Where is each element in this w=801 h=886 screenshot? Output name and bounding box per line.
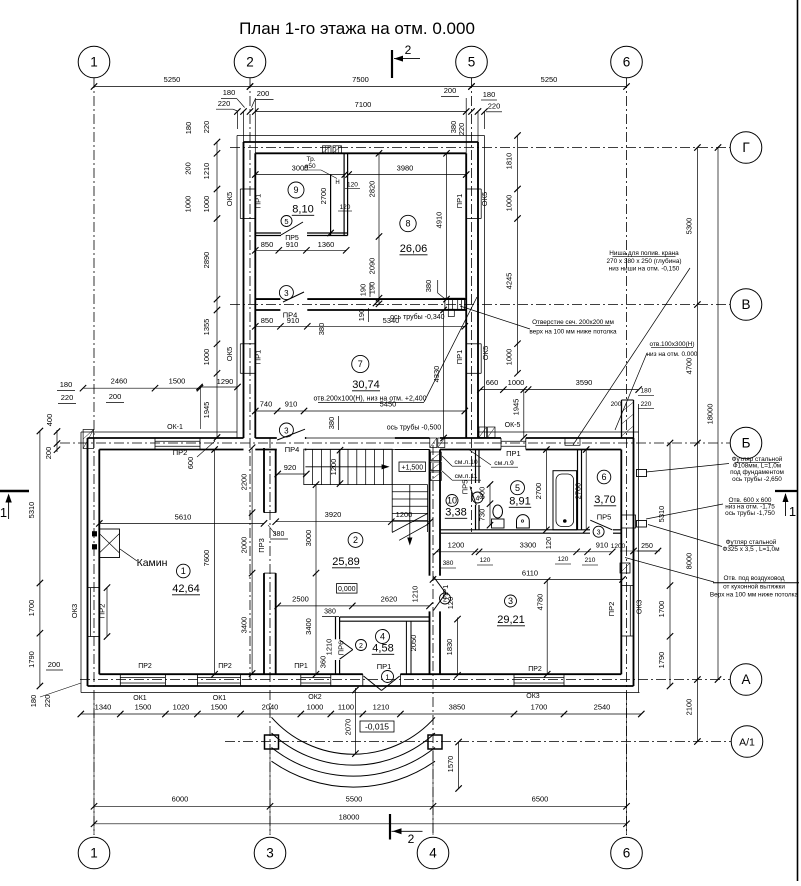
svg-text:5300: 5300 (684, 218, 693, 235)
window ОК5 upper-right wall (upper) (466, 188, 481, 190)
porch step arc r120 (272, 733, 436, 765)
bath cluster chain 1200/3300/910 (437, 551, 613, 553)
svg-text:ПР6: ПР6 (337, 641, 346, 656)
dimension chain 850/910/1360 below room 9 (255, 249, 346, 251)
thin foundation line right of upper block (484, 136, 486, 439)
svg-text:1: 1 (789, 504, 796, 519)
svg-text:⌀50: ⌀50 (304, 163, 316, 170)
svg-text:А: А (741, 672, 750, 687)
svg-text:380: 380 (424, 280, 433, 293)
axis line Б (horizontal) (60, 442, 730, 444)
svg-text:3: 3 (284, 427, 289, 436)
leader to отверстие (460, 306, 530, 329)
svg-text:200: 200 (444, 86, 457, 95)
svg-text:ПР1: ПР1 (294, 663, 308, 670)
svg-text:ПР1: ПР1 (377, 662, 392, 671)
svg-text:360: 360 (319, 656, 328, 669)
vertical 800/730 at toilet (489, 485, 491, 526)
axis line А (horizontal) (80, 679, 730, 681)
svg-text:200: 200 (44, 447, 53, 460)
svg-text:3920: 3920 (325, 510, 342, 519)
toilet (492, 519, 505, 528)
svg-text:ПР2: ПР2 (97, 604, 106, 619)
svg-text:5250: 5250 (164, 75, 181, 84)
svg-text:3: 3 (266, 846, 274, 861)
svg-text:3: 3 (508, 596, 513, 606)
svg-text:2540: 2540 (594, 703, 611, 712)
svg-text:400: 400 (45, 414, 54, 427)
svg-text:200: 200 (611, 401, 622, 408)
axis circle 4 (bottom) (417, 837, 449, 869)
outer wall upper block right (axis 5) (477, 142, 479, 438)
svg-text:190: 190 (359, 284, 368, 297)
svg-text:220: 220 (218, 99, 231, 108)
svg-text:ПР5: ПР5 (285, 235, 299, 242)
svg-text:1000: 1000 (307, 703, 324, 712)
svg-text:380: 380 (273, 531, 285, 538)
svg-text:ОК-1: ОК-1 (167, 424, 183, 431)
door ПР4 in В wall with swing and mark circle 3 (283, 292, 304, 302)
window ОК5 upper-left wall (upper) (240, 188, 255, 190)
underline воздуховод (713, 582, 799, 584)
dimension chain top row 1: 5250/7500/5250 (94, 86, 627, 88)
svg-text:-0,015: -0,015 (365, 722, 389, 732)
room 8 number circle and area label (400, 215, 416, 231)
svg-text:7100: 7100 (355, 100, 372, 109)
svg-text:910: 910 (596, 540, 609, 549)
svg-text:отв.100х300(Н): отв.100х300(Н) (650, 341, 695, 348)
svg-text:А/1: А/1 (739, 736, 755, 748)
folding door ПР6 of vestibule with mark circle 2 (340, 640, 353, 650)
svg-text:1360: 1360 (318, 240, 335, 249)
pipe sleeve upper (637, 470, 647, 477)
door ПР5 of room 9 with swing and mark circle 5 (281, 222, 303, 235)
svg-text:ПР1: ПР1 (455, 350, 464, 365)
svg-text:850: 850 (261, 240, 274, 249)
extension lines top of wall (axis 2) (236, 112, 238, 130)
axis line 6 (vertical) (626, 78, 628, 835)
svg-text:ПР1: ПР1 (441, 585, 450, 600)
svg-text:1: 1 (90, 55, 98, 70)
outer wall lower block left (axis 1) (87, 438, 89, 686)
axis circle В (right) (730, 289, 762, 321)
svg-text:190: 190 (357, 309, 366, 322)
svg-text:1945: 1945 (512, 399, 521, 416)
opening 600x600 on right wall (622, 515, 636, 528)
porch step arc r109 (272, 717, 436, 754)
svg-text:1000: 1000 (202, 349, 211, 366)
svg-text:ПР2: ПР2 (218, 663, 232, 670)
stair upper flight treads (304, 449, 392, 484)
svg-text:1790: 1790 (27, 651, 36, 668)
room 10 number circle and area label (446, 495, 458, 507)
svg-text:6000: 6000 (172, 795, 189, 804)
svg-text:ПР4: ПР4 (285, 445, 300, 454)
svg-text:Г: Г (742, 140, 750, 155)
partition below room 9 (255, 232, 281, 234)
svg-text:3980: 3980 (397, 164, 414, 173)
svg-text:ОК5: ОК5 (225, 347, 234, 361)
hatched niche at left Б corner (83, 430, 94, 449)
svg-text:1200: 1200 (611, 543, 626, 550)
dimension 920 at stairs (278, 473, 307, 475)
svg-text:4245: 4245 (505, 273, 514, 290)
svg-text:920: 920 (284, 463, 297, 472)
left outer chain 5310/1700/1790 (39, 431, 41, 686)
svg-text:200: 200 (48, 660, 61, 669)
svg-text:5: 5 (468, 55, 476, 70)
leader to отв 600х600 (646, 504, 723, 519)
svg-text:ОК5: ОК5 (481, 346, 490, 360)
svg-text:ПР5: ПР5 (460, 480, 469, 495)
svg-text:2: 2 (405, 43, 412, 57)
outer wall lower block bottom (А axis) (88, 685, 634, 687)
svg-text:1000: 1000 (505, 349, 514, 366)
dimension chain 2460/1500 over ОК-1 (83, 387, 200, 389)
svg-text:3,38: 3,38 (445, 507, 466, 519)
svg-text:8,91: 8,91 (509, 496, 530, 508)
svg-text:низ ниши на отм. -0,150: низ ниши на отм. -0,150 (609, 266, 680, 273)
svg-text:2: 2 (353, 535, 358, 545)
svg-text:1000: 1000 (184, 196, 193, 213)
axis circle А/1 (right) (731, 726, 763, 758)
flue boxes in top wall (323, 146, 332, 153)
thin foundation line above top wall (237, 135, 485, 137)
svg-text:2820: 2820 (368, 181, 377, 198)
section mark 2 (top) (391, 50, 393, 78)
door in axis-4 wall with mark circle 2 (433, 577, 445, 594)
stair arrow upper (305, 466, 386, 468)
svg-text:5250: 5250 (541, 75, 558, 84)
bathroom cluster bottom wall (440, 529, 590, 531)
section mark 2 (bottom) (389, 814, 391, 840)
window ОК3 right wall (621, 585, 633, 587)
svg-text:Верх на 100 мм ниже потолка: Верх на 100 мм ниже потолка (710, 592, 799, 599)
dimension 6110 room 3 (433, 578, 623, 580)
svg-text:ОК1: ОК1 (213, 695, 227, 702)
svg-text:2090: 2090 (368, 258, 377, 275)
vestibule left partition with folding door (335, 617, 337, 639)
stair lower flight treads (391, 485, 393, 532)
thin foundation line below bottom wall (81, 692, 640, 694)
svg-text:2000: 2000 (240, 537, 249, 554)
svg-text:4910: 4910 (435, 212, 444, 229)
thin foundation line right of lower block (638, 432, 640, 693)
svg-text:3590: 3590 (576, 378, 593, 387)
svg-text:1700: 1700 (531, 703, 548, 712)
axis line А/1 (horizontal) (225, 741, 731, 743)
svg-text:План 1-го этажа на отм. 0.000: План 1-го этажа на отм. 0.000 (239, 19, 475, 38)
svg-text:18000: 18000 (339, 812, 360, 821)
svg-text:ПР3: ПР3 (257, 538, 266, 553)
svg-text:6: 6 (623, 846, 631, 861)
leader to футляр Ф108 (646, 464, 729, 473)
outer wall upper block left (axis 2) (243, 142, 245, 438)
svg-text:4: 4 (429, 846, 437, 861)
room 6 number circle and area label (597, 470, 611, 484)
svg-text:7: 7 (358, 359, 363, 369)
level mark 0,000 in hall (337, 584, 358, 594)
svg-text:6: 6 (601, 472, 606, 482)
porch dimension 1570 (458, 742, 460, 789)
axis circle А (right) (730, 664, 762, 696)
svg-text:200: 200 (257, 89, 270, 98)
bottom chain total 18000 (94, 823, 627, 825)
svg-text:ПР1: ПР1 (455, 194, 464, 209)
svg-text:5: 5 (515, 483, 520, 493)
svg-text:1500: 1500 (169, 377, 186, 386)
svg-text:1500: 1500 (135, 703, 152, 712)
axis circle 6 (bottom) (611, 837, 643, 869)
axis circle 2 (top) (234, 46, 266, 78)
svg-text:180: 180 (641, 388, 652, 395)
svg-text:26,06: 26,06 (400, 243, 428, 255)
svg-text:7500: 7500 (352, 75, 369, 84)
svg-text:Н: Н (335, 180, 339, 186)
svg-text:ОК1: ОК1 (133, 695, 147, 702)
dimension 3980 in room 8 (349, 174, 467, 176)
axis circle Г (right) (730, 132, 762, 164)
svg-text:120: 120 (347, 181, 358, 188)
svg-text:30,74: 30,74 (352, 379, 380, 391)
svg-text:ось трубы -1,750: ось трубы -1,750 (725, 509, 775, 517)
svg-text:ОК3: ОК3 (526, 693, 540, 700)
right vertical chain total 18000 (717, 148, 719, 680)
svg-text:3,70: 3,70 (594, 494, 615, 506)
fireplace (99, 529, 119, 558)
svg-text:1355: 1355 (202, 319, 211, 336)
svg-text:отв.200х100(Н), низ на отм. +2: отв.200х100(Н), низ на отм. +2,400 (314, 396, 427, 403)
svg-text:1: 1 (0, 505, 7, 520)
svg-text:120: 120 (480, 557, 491, 564)
svg-text:220: 220 (202, 121, 211, 134)
svg-text:180: 180 (60, 380, 73, 389)
stair arrow lower (409, 485, 411, 542)
svg-text:6110: 6110 (522, 569, 538, 578)
axis2 vertical chain 2200/2000/3400 (251, 448, 253, 674)
axis circle Б (right) (730, 427, 762, 459)
door to bathroom with swing and mark circle 4 (470, 487, 476, 506)
axis circle 1 (bottom) (78, 837, 110, 869)
svg-text:ОК3: ОК3 (634, 600, 643, 614)
svg-text:Отверстие сеч. 200х200 мм: Отверстие сеч. 200х200 мм (532, 319, 614, 326)
svg-text:3000: 3000 (304, 530, 313, 547)
leader to niche (573, 268, 690, 445)
window ОК1 b in bottom wall (196, 674, 198, 686)
bottom chain windows row (81, 713, 642, 715)
axis line 4 (vertical) (432, 445, 434, 835)
section mark 1 (right) (775, 490, 797, 492)
duct boxes at В wall right (445, 298, 465, 309)
svg-text:1830: 1830 (445, 639, 454, 656)
svg-text:ось трубы -2,650: ось трубы -2,650 (732, 475, 782, 483)
svg-text:180: 180 (483, 90, 496, 99)
vertical dimension 4330 right of stairwell (443, 310, 445, 438)
porch column right (428, 735, 442, 749)
svg-text:1: 1 (181, 566, 186, 576)
dimension chain top row 2: 7100 (255, 111, 466, 113)
dimension 660/1000/3590 above Б wall right (480, 389, 638, 391)
svg-text:2700: 2700 (319, 188, 328, 205)
svg-text:380: 380 (317, 323, 326, 336)
svg-text:18000: 18000 (706, 404, 715, 425)
svg-text:180: 180 (184, 122, 193, 135)
wash sink (517, 515, 530, 528)
vertical dimension 1700/1790 left inner (106, 588, 108, 637)
svg-text:4: 4 (380, 632, 385, 642)
svg-text:2700: 2700 (534, 483, 543, 500)
svg-text:5610: 5610 (175, 513, 192, 522)
svg-text:ПР1: ПР1 (253, 350, 262, 365)
svg-text:1000: 1000 (508, 378, 525, 387)
axis circle 1 (top) (78, 46, 110, 78)
svg-text:220: 220 (43, 695, 52, 708)
svg-text:ОК2: ОК2 (308, 694, 322, 701)
svg-text:1210: 1210 (325, 639, 334, 656)
axis line 5 (vertical) (471, 78, 473, 532)
svg-text:2: 2 (359, 643, 363, 650)
svg-text:1340: 1340 (95, 703, 112, 712)
svg-text:1200: 1200 (448, 540, 465, 549)
svg-text:380: 380 (324, 609, 336, 616)
dimension 2500/2620 in hall (278, 605, 430, 607)
svg-text:2890: 2890 (202, 252, 211, 269)
svg-text:190: 190 (368, 282, 377, 295)
level mark -0,015 at porch (360, 721, 394, 732)
window ОК5 upper-right wall (lower) (466, 343, 481, 345)
svg-text:5310: 5310 (27, 502, 36, 519)
svg-text:120: 120 (558, 556, 569, 563)
stair break line (392, 514, 428, 533)
svg-text:220: 220 (488, 102, 501, 111)
pipe sleeve lower (637, 521, 647, 528)
room 4 number circle and area label (376, 630, 390, 644)
svg-text:2460: 2460 (111, 377, 128, 386)
svg-text:250: 250 (641, 543, 653, 550)
svg-text:1200: 1200 (329, 459, 338, 476)
svg-text:Футляр стальной: Футляр стальной (726, 538, 777, 546)
svg-text:ОК5: ОК5 (225, 192, 234, 206)
closet partition (405, 621, 407, 674)
outer wall lower block right (axis 6) (633, 438, 635, 686)
svg-text:см.л.11: см.л.11 (455, 473, 478, 480)
svg-text:Ниша для полив. крана: Ниша для полив. крана (609, 250, 679, 257)
room 7 number circle and area label (352, 355, 369, 372)
thin line above Б wall right (478, 431, 639, 433)
svg-text:850: 850 (261, 316, 274, 325)
svg-text:1570: 1570 (446, 756, 455, 773)
svg-text:660: 660 (486, 378, 499, 387)
extension line stubs bottom (93, 693, 95, 835)
axis line В (horizontal) (230, 304, 730, 306)
svg-text:180: 180 (29, 695, 38, 708)
svg-text:верх на 100 мм ниже потолка: верх на 100 мм ниже потолка (529, 329, 617, 336)
entrance double door with mark circle 1 (362, 674, 364, 686)
svg-text:2: 2 (408, 832, 415, 846)
svg-text:25,89: 25,89 (332, 556, 360, 568)
svg-text:270 х 380 х 250 (глубина): 270 х 380 х 250 (глубина) (606, 257, 681, 265)
svg-text:2100: 2100 (684, 699, 693, 716)
svg-text:ось трубы -0,500: ось трубы -0,500 (387, 424, 442, 432)
niche in Б wall right (565, 438, 580, 445)
svg-text:1810: 1810 (505, 153, 514, 170)
svg-text:1700: 1700 (657, 601, 666, 618)
svg-text:ПР4: ПР4 (283, 311, 298, 320)
thin foundation line left of upper block (236, 136, 238, 439)
svg-text:см.л.9: см.л.9 (494, 460, 514, 467)
stair landing edge (391, 449, 393, 484)
svg-text:ОК3: ОК3 (70, 604, 79, 618)
wall on axis 4 (stair / hall wall) (429, 450, 431, 576)
svg-text:910: 910 (285, 400, 298, 409)
axis circle 5 (top) (456, 46, 488, 78)
svg-text:Ф325 х 3,5 , L=1,0м: Ф325 х 3,5 , L=1,0м (722, 546, 779, 553)
vertical dimension 2700 room 9 (327, 230, 333, 236)
porch step arc r142 (272, 761, 436, 787)
svg-text:ОК5: ОК5 (480, 192, 489, 206)
svg-text:+1,500: +1,500 (401, 465, 423, 472)
svg-text:4780: 4780 (536, 594, 545, 611)
svg-text:9: 9 (293, 185, 298, 195)
dimension 3920/1200 in hall (276, 521, 430, 523)
air duct box on right wall (620, 563, 630, 573)
svg-text:3850: 3850 (449, 703, 466, 712)
svg-text:8: 8 (405, 219, 410, 229)
svg-text:ПР2: ПР2 (607, 602, 616, 617)
svg-text:1: 1 (90, 846, 98, 861)
svg-text:8,10: 8,10 (292, 204, 313, 216)
door ПР4 in Б wall with swing and mark circle 3 (277, 429, 305, 440)
bath corridor partition with door (475, 450, 477, 484)
svg-text:см.л.10: см.л.10 (454, 459, 478, 466)
svg-text:ОК-5: ОК-5 (505, 422, 521, 429)
svg-text:4700: 4700 (684, 358, 693, 375)
leader to воздуховод (625, 558, 714, 583)
window ОК3 bottom in bottom wall (513, 674, 515, 686)
svg-text:1945: 1945 (202, 402, 211, 419)
svg-text:7600: 7600 (202, 550, 211, 567)
svg-text:Тр.: Тр. (306, 156, 315, 163)
leader to отв.100х300 (615, 353, 647, 430)
room 2 number circle and area label (348, 533, 363, 548)
svg-text:ось трубы -0,340: ось трубы -0,340 (390, 313, 445, 321)
vertical chain 2820/2090/190 (378, 153, 380, 303)
rotated 3000/3400 dim in hall (315, 485, 317, 675)
outer wall upper block top (Г axis) (244, 141, 479, 143)
vestibule top partition (340, 616, 430, 618)
room 3 number circle and area label (505, 595, 517, 607)
partition right of bath tub (577, 450, 579, 530)
svg-text:0,000: 0,000 (338, 586, 356, 593)
thin foundation line left of lower block (80, 432, 82, 693)
svg-text:800: 800 (478, 487, 487, 500)
svg-text:3: 3 (597, 530, 601, 537)
room 1 number circle and area label (177, 564, 191, 578)
svg-text:Б: Б (742, 436, 751, 451)
svg-text:2: 2 (246, 55, 254, 70)
axis circle 6 (top) (611, 46, 643, 78)
window ОК2 in bottom wall (300, 674, 302, 686)
svg-text:1210: 1210 (373, 703, 390, 712)
dimension 3000 in room 9 (255, 174, 344, 176)
bath tub (553, 471, 577, 530)
room 5 number circle and area label (511, 481, 525, 495)
svg-text:1000: 1000 (505, 195, 514, 212)
svg-text:730: 730 (478, 509, 487, 522)
svg-text:ПР2: ПР2 (528, 666, 542, 673)
svg-text:2500: 2500 (292, 595, 309, 604)
wall on axis Б left segment with window ОК-1 (88, 437, 244, 439)
